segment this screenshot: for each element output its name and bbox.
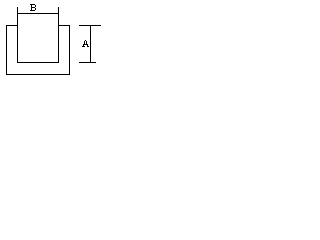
wire: inner bottom of channel bbox=[17, 62, 59, 63]
wire: left extension / inner left face of channel bbox=[17, 7, 18, 63]
label B bbox=[30, 4, 36, 11]
wire: outer left edge bbox=[6, 25, 7, 75]
wire: bottom tick of dimension A bbox=[79, 62, 96, 63]
dimension line A (vertical, right) bbox=[90, 25, 91, 63]
wire: top of right arm bbox=[58, 25, 70, 26]
background bbox=[0, 0, 104, 78]
dimension line B (horizontal, top) bbox=[17, 13, 59, 14]
wire: top tick of dimension A bbox=[79, 25, 101, 26]
wire: top of left arm bbox=[6, 25, 18, 26]
wire: outer right edge bbox=[69, 25, 70, 75]
wire: right extension / inner right face of channel bbox=[58, 7, 59, 63]
label A bbox=[82, 40, 89, 47]
wire: outer bottom edge bbox=[6, 74, 70, 75]
